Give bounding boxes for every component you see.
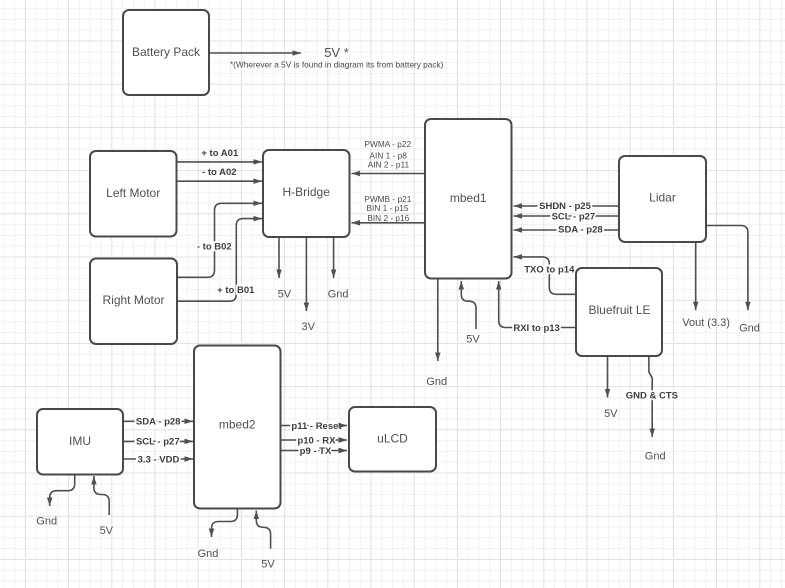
node 5V (Bluefruit LE): [604, 408, 618, 420]
wire SDA - p28 (Lidar to mbed1): [514, 225, 620, 236]
svg-text:TXO to p14: TXO to p14: [524, 264, 575, 275]
wire 3V from H-Bridge: [305, 237, 307, 311]
svg-text:Vout (3.3): Vout (3.3): [682, 317, 730, 329]
svg-text:SDA - p28: SDA - p28: [136, 417, 181, 428]
svg-text:GND & CTS: GND & CTS: [626, 391, 678, 402]
node 5V (H-Bridge): [278, 289, 292, 301]
node 3V (H-Bridge): [301, 321, 315, 333]
wire Gnd from mbed1: [437, 279, 439, 362]
svg-text:Right Motor: Right Motor: [102, 293, 164, 307]
svg-text:5V *: 5V *: [324, 45, 349, 60]
wire 3.3 - VDD (IMU to mbed2): [123, 454, 193, 465]
wire GND & CTS from Bluefruit LE: [626, 356, 678, 437]
wire 5V from Bluefruit LE: [607, 356, 609, 398]
wire SCL - p27 (Lidar to mbed1): [514, 211, 620, 222]
node Gnd (Bluefruit LE): [645, 451, 666, 463]
svg-text:5V: 5V: [278, 289, 292, 301]
wire 5V from Battery Pack: [209, 52, 301, 54]
svg-text:5V: 5V: [100, 525, 114, 537]
svg-text:BIN 1 - p15: BIN 1 - p15: [367, 203, 409, 213]
wire Gnd from H-Bridge: [333, 237, 335, 278]
node Gnd (H-Bridge): [328, 289, 349, 301]
svg-text:5V: 5V: [261, 559, 275, 571]
svg-text:mbed1: mbed1: [450, 191, 487, 205]
svg-text:- to B02: - to B02: [197, 241, 232, 252]
svg-text:+ to B01: + to B01: [217, 285, 255, 296]
note battery caption: [230, 59, 444, 69]
svg-text:BIN 2 - p16: BIN 2 - p16: [367, 213, 409, 223]
wire Gnd from IMU: [50, 475, 75, 507]
svg-text:3V: 3V: [301, 321, 315, 333]
svg-text:IMU: IMU: [69, 434, 91, 448]
svg-text:Gnd: Gnd: [198, 548, 219, 560]
svg-text:5V: 5V: [604, 408, 618, 420]
svg-text:p10 - RX: p10 - RX: [297, 435, 336, 446]
node 5V *: [324, 45, 349, 60]
svg-text:5V: 5V: [466, 334, 480, 346]
svg-text:p9 - TX: p9 - TX: [300, 446, 332, 457]
wire p10 - RX (mbed2 to uLCD): [281, 435, 348, 446]
wire - to A02 (Left Motor to H-Bridge): [177, 167, 263, 181]
svg-text:SCL - p27: SCL - p27: [136, 437, 180, 448]
svg-text:- to A02: - to A02: [202, 167, 236, 178]
svg-text:Gnd: Gnd: [36, 515, 57, 527]
svg-text:Bluefruit LE: Bluefruit LE: [588, 303, 650, 317]
wire p9 - TX (mbed2 to uLCD): [281, 446, 348, 457]
svg-text:Battery Pack: Battery Pack: [132, 45, 201, 59]
wire - to B02 (Right Motor to H-Bridge): [177, 203, 262, 277]
block H-Bridge: [263, 150, 350, 237]
block uLCD: [349, 407, 436, 472]
node 5V (mbed2): [261, 559, 275, 571]
svg-text:p11 - Reset: p11 - Reset: [291, 421, 342, 432]
svg-text:+ to A01: + to A01: [201, 148, 239, 159]
node Gnd (mbed2): [198, 548, 219, 560]
svg-text:AIN 2 - p11: AIN 2 - p11: [368, 160, 410, 170]
wire + to A01 (Left Motor to H-Bridge): [177, 148, 263, 162]
svg-text:mbed2: mbed2: [219, 418, 256, 432]
svg-text:SCL - p27: SCL - p27: [552, 211, 596, 222]
block Right Motor: [90, 259, 177, 345]
wire + to B01 (Right Motor to H-Bridge): [177, 219, 262, 302]
block mbed2: [194, 346, 281, 509]
node 5V (mbed1): [466, 334, 480, 346]
svg-text:3.3 - VDD: 3.3 - VDD: [138, 454, 180, 465]
wire SCL - p27 (IMU to mbed2): [123, 437, 193, 448]
svg-text:Gnd: Gnd: [426, 376, 447, 388]
svg-text:Lidar: Lidar: [649, 191, 676, 205]
svg-text:H-Bridge: H-Bridge: [283, 185, 331, 199]
block Left Motor: [90, 151, 177, 237]
block Battery Pack: [123, 10, 209, 95]
block Lidar: [619, 156, 706, 242]
wire 5V into IMU: [94, 476, 109, 515]
block Bluefruit LE: [576, 268, 662, 356]
wire 5V into mbed2: [256, 511, 270, 549]
svg-text:SDA - p28: SDA - p28: [558, 225, 603, 236]
wire Gnd from Lidar: [706, 226, 748, 311]
svg-text:*(Wherever a 5V is found in di: *(Wherever a 5V is found in diagram its …: [230, 59, 444, 69]
block IMU: [37, 409, 123, 475]
wire p11 - Reset (mbed2 to uLCD): [281, 421, 348, 432]
svg-text:Gnd: Gnd: [328, 289, 349, 301]
svg-text:uLCD: uLCD: [377, 431, 408, 445]
node 5V (IMU): [100, 525, 114, 537]
block mbed1: [425, 119, 512, 279]
wire Gnd from mbed2: [212, 509, 238, 538]
wire PWMB/BIN group (mbed1 to H-Bridge): [352, 194, 426, 223]
svg-text:Gnd: Gnd: [739, 323, 760, 335]
node Gnd (Lidar): [739, 323, 760, 335]
wire 5V from H-Bridge: [278, 237, 280, 278]
node Vout (3.3): [682, 317, 730, 329]
wire TXO to p14 (Bluefruit LE to mbed1): [514, 257, 577, 294]
svg-text:PWMA - p22: PWMA - p22: [365, 139, 412, 149]
wire SDA - p28 (IMU to mbed2): [123, 417, 193, 428]
svg-text:RXI to p13: RXI to p13: [513, 323, 559, 334]
wire PWMA/AIN group (mbed1 to H-Bridge): [352, 139, 426, 173]
svg-text:Left Motor: Left Motor: [106, 186, 160, 200]
wire SHDN - p25 (Lidar to mbed1): [514, 201, 620, 212]
node Gnd (IMU): [36, 515, 57, 527]
node Gnd (mbed1): [426, 376, 447, 388]
svg-text:Gnd: Gnd: [645, 451, 666, 463]
wire RXI to p13 (Bluefruit LE to mbed1): [499, 281, 576, 334]
wire 5V into mbed1: [461, 281, 476, 329]
wire Vout (3.3) from Lidar: [695, 242, 697, 311]
